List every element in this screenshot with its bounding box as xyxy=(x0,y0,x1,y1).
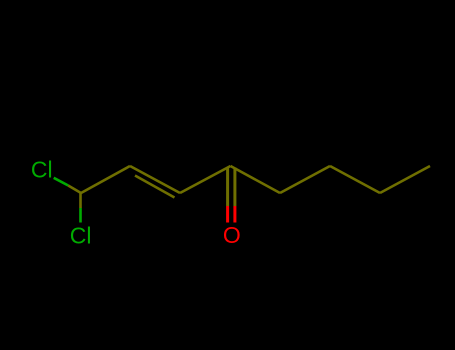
bond Cl(top)-C1 olive half xyxy=(68,186,81,194)
svg-text:Cl: Cl xyxy=(31,157,53,183)
bond C1-C2 xyxy=(81,166,130,193)
bond C4=O left line olive upper part xyxy=(226,168,229,207)
bond C4=O right line red lower part xyxy=(233,206,236,223)
svg-text:O: O xyxy=(223,222,241,248)
bond C4=O left line red lower part xyxy=(226,206,229,223)
bond C4-C5 xyxy=(231,166,281,193)
bond C3-C4 xyxy=(180,166,231,193)
bond C2=C3 main line xyxy=(130,166,180,193)
bond Cl(top)-C1 green half xyxy=(54,178,68,186)
bond C2=C3 inner line xyxy=(135,176,175,198)
bond C4=O right line olive upper part xyxy=(233,168,236,207)
bond Cl(bottom)-C1 green half xyxy=(79,208,82,223)
bond C6-C7 xyxy=(330,166,380,193)
bond Cl(bottom)-C1 olive half xyxy=(79,193,82,208)
bond C5-C6 xyxy=(280,166,330,193)
svg-text:Cl: Cl xyxy=(70,222,92,248)
bond C7-C8 xyxy=(380,166,430,193)
